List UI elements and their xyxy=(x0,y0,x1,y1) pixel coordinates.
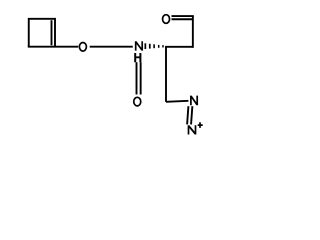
wire bond ring bottom edge continuing to ether O xyxy=(28,46,78,48)
cyclobutene C=C double bond inner line xyxy=(51,20,53,45)
azide N=N double bond xyxy=(187,106,188,124)
wire bond stereocenter down to CH2 xyxy=(165,47,167,102)
carbamate C=O double bond below NH xyxy=(136,62,138,94)
atom label N (amide) xyxy=(135,41,143,50)
plus charge on azide N2 xyxy=(198,122,203,128)
atom label O (carbamate carbonyl) xyxy=(134,97,141,106)
wire bond CH2 to azide N1 xyxy=(166,101,188,102)
cyclobutene ring xyxy=(29,19,55,47)
atom label O (ether) xyxy=(79,43,86,52)
aldehyde C=O double bond xyxy=(172,15,194,17)
wire bond ether O to amide N xyxy=(90,46,133,48)
hashed wedge bond from amide N to stereocenter xyxy=(145,43,163,49)
wire bond CH2 up to aldehyde C xyxy=(192,16,194,48)
wire bond stereocenter to CH2 (right) xyxy=(165,46,193,48)
atom label N (azide N2, positively charged) xyxy=(188,125,197,134)
atom label O (aldehyde) xyxy=(163,15,170,24)
atom label N (azide N1) xyxy=(190,96,198,106)
atom label H (on amide N) xyxy=(134,53,141,62)
